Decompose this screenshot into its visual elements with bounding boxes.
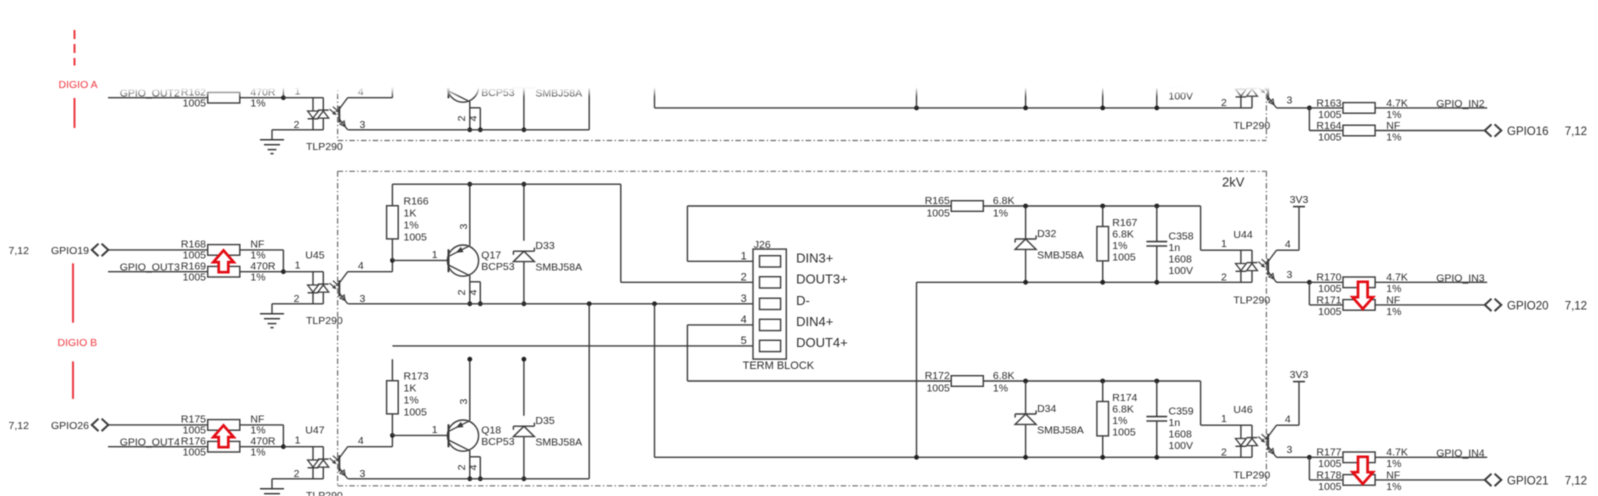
svg-text:GPIO_IN3: GPIO_IN3 <box>1436 272 1485 284</box>
svg-text:1%: 1% <box>404 220 419 232</box>
svg-text:6.8K: 6.8K <box>993 195 1015 207</box>
svg-text:1: 1 <box>1221 413 1227 425</box>
svg-text:GPIO26: GPIO26 <box>51 420 89 432</box>
svg-text:C359: C359 <box>1169 405 1194 417</box>
svg-text:D-: D- <box>796 293 810 308</box>
svg-text:1n: 1n <box>1169 417 1181 429</box>
svg-text:1005: 1005 <box>404 232 428 244</box>
svg-text:2: 2 <box>456 115 468 121</box>
svg-text:SMBJ58A: SMBJ58A <box>535 262 582 274</box>
svg-text:R178: R178 <box>1316 469 1341 481</box>
svg-text:J26: J26 <box>754 239 771 251</box>
svg-text:1005: 1005 <box>926 382 950 394</box>
svg-text:R172: R172 <box>925 370 950 382</box>
svg-text:6.8K: 6.8K <box>993 370 1015 382</box>
svg-text:U45: U45 <box>305 250 324 262</box>
svg-text:NF: NF <box>250 414 264 426</box>
svg-text:3: 3 <box>741 293 747 305</box>
svg-text:1005: 1005 <box>926 207 950 219</box>
svg-text:3V3: 3V3 <box>1290 194 1309 206</box>
svg-text:BCP53: BCP53 <box>481 261 514 273</box>
svg-text:1608: 1608 <box>1169 428 1193 440</box>
svg-text:R165: R165 <box>925 195 950 207</box>
svg-text:1%: 1% <box>250 98 265 110</box>
svg-text:SMBJ58A: SMBJ58A <box>1037 250 1084 262</box>
svg-text:7,12: 7,12 <box>1565 301 1587 313</box>
svg-text:1005: 1005 <box>1112 251 1136 263</box>
svg-text:R173: R173 <box>404 371 429 383</box>
svg-text:6.8K: 6.8K <box>1112 228 1134 240</box>
svg-text:1005: 1005 <box>183 446 207 458</box>
svg-text:R174: R174 <box>1112 392 1137 404</box>
svg-text:1n: 1n <box>1169 242 1181 254</box>
svg-text:4: 4 <box>741 314 747 326</box>
svg-text:1%: 1% <box>1112 240 1127 252</box>
svg-text:1: 1 <box>741 250 747 262</box>
svg-text:GPIO16: GPIO16 <box>1507 126 1549 138</box>
svg-text:TLP290: TLP290 <box>1233 120 1270 132</box>
svg-text:DOUT4+: DOUT4+ <box>796 335 848 350</box>
svg-text:DOUT3+: DOUT3+ <box>796 272 848 287</box>
svg-text:1005: 1005 <box>1318 481 1342 493</box>
svg-text:3: 3 <box>458 224 470 230</box>
svg-text:4: 4 <box>358 435 364 447</box>
svg-text:7,12: 7,12 <box>9 245 30 257</box>
svg-text:2: 2 <box>1221 447 1227 459</box>
svg-text:D32: D32 <box>1037 228 1056 240</box>
svg-text:2: 2 <box>1221 97 1227 109</box>
svg-text:7,12: 7,12 <box>9 420 30 432</box>
svg-text:3: 3 <box>1287 444 1293 456</box>
svg-text:TLP290: TLP290 <box>306 141 343 153</box>
svg-text:6.8K: 6.8K <box>1112 403 1134 415</box>
svg-text:1005: 1005 <box>1112 426 1136 438</box>
svg-text:1608: 1608 <box>1169 253 1193 265</box>
svg-text:1%: 1% <box>1386 131 1401 143</box>
svg-text:C358: C358 <box>1169 230 1194 242</box>
svg-text:R171: R171 <box>1316 294 1341 306</box>
svg-text:D35: D35 <box>535 415 554 427</box>
svg-text:R170: R170 <box>1316 272 1341 284</box>
svg-text:4: 4 <box>1285 414 1291 426</box>
svg-text:1: 1 <box>1221 238 1227 250</box>
svg-text:SMBJ58A: SMBJ58A <box>1037 425 1084 437</box>
svg-text:470R: 470R <box>250 260 276 272</box>
svg-text:2kV: 2kV <box>1222 175 1245 190</box>
svg-text:U46: U46 <box>1233 404 1252 416</box>
svg-text:4: 4 <box>1285 239 1291 251</box>
svg-text:1: 1 <box>432 249 438 261</box>
svg-text:TLP290: TLP290 <box>1233 295 1270 307</box>
svg-text:1%: 1% <box>1386 306 1401 318</box>
svg-text:R164: R164 <box>1316 120 1341 132</box>
svg-text:470R: 470R <box>250 435 276 447</box>
svg-text:1%: 1% <box>993 207 1008 219</box>
svg-text:1005: 1005 <box>1318 306 1342 318</box>
svg-text:DIGIO A: DIGIO A <box>59 79 98 91</box>
svg-text:100V: 100V <box>1169 265 1194 277</box>
svg-text:1%: 1% <box>250 447 265 459</box>
svg-text:1005: 1005 <box>183 97 207 109</box>
svg-text:D33: D33 <box>535 240 554 252</box>
svg-text:Q18: Q18 <box>481 424 501 436</box>
svg-text:R177: R177 <box>1316 447 1341 459</box>
svg-text:4: 4 <box>468 289 480 295</box>
svg-text:4: 4 <box>468 464 480 470</box>
svg-text:2: 2 <box>294 293 300 305</box>
svg-text:5: 5 <box>741 335 747 347</box>
svg-text:2: 2 <box>1221 272 1227 284</box>
svg-text:TLP290: TLP290 <box>1233 470 1270 482</box>
svg-text:100V: 100V <box>1169 440 1194 452</box>
svg-text:3: 3 <box>458 399 470 405</box>
svg-text:1K: 1K <box>404 208 417 220</box>
svg-text:SMBJ58A: SMBJ58A <box>535 437 582 449</box>
svg-text:TLP290: TLP290 <box>306 490 343 496</box>
svg-text:TERM BLOCK: TERM BLOCK <box>743 360 815 372</box>
svg-text:2: 2 <box>741 271 747 283</box>
svg-text:D34: D34 <box>1037 403 1056 415</box>
svg-text:4: 4 <box>358 260 364 272</box>
svg-text:2: 2 <box>456 289 468 295</box>
svg-text:BCP53: BCP53 <box>481 436 514 448</box>
svg-text:1%: 1% <box>404 395 419 407</box>
svg-text:Q17: Q17 <box>481 249 501 261</box>
svg-text:1: 1 <box>295 259 301 271</box>
svg-text:4: 4 <box>468 115 480 121</box>
svg-text:1005: 1005 <box>183 271 207 283</box>
svg-text:1%: 1% <box>250 272 265 284</box>
svg-text:1%: 1% <box>1112 415 1127 427</box>
svg-text:R163: R163 <box>1316 97 1341 109</box>
svg-text:GPIO_IN2: GPIO_IN2 <box>1436 98 1485 110</box>
svg-text:7,12: 7,12 <box>1565 126 1587 138</box>
svg-text:7,12: 7,12 <box>1565 476 1587 488</box>
svg-text:2: 2 <box>294 119 300 131</box>
svg-text:NF: NF <box>250 239 264 251</box>
svg-text:1: 1 <box>432 424 438 436</box>
svg-text:3: 3 <box>1287 269 1293 281</box>
svg-text:1K: 1K <box>404 383 417 395</box>
svg-text:1%: 1% <box>993 382 1008 394</box>
svg-text:1%: 1% <box>1386 481 1401 493</box>
svg-text:2: 2 <box>294 468 300 480</box>
svg-text:U44: U44 <box>1233 229 1252 241</box>
svg-text:DIGIO B: DIGIO B <box>58 337 98 349</box>
svg-text:1005: 1005 <box>404 407 428 419</box>
svg-text:DIN3+: DIN3+ <box>796 251 833 266</box>
svg-text:2: 2 <box>456 464 468 470</box>
svg-text:R167: R167 <box>1112 217 1137 229</box>
svg-text:GPIO_IN4: GPIO_IN4 <box>1436 447 1485 459</box>
svg-text:U47: U47 <box>305 425 324 437</box>
svg-text:3V3: 3V3 <box>1290 369 1309 381</box>
svg-text:GPIO20: GPIO20 <box>1507 301 1549 313</box>
svg-text:GPIO19: GPIO19 <box>51 245 89 257</box>
svg-text:1: 1 <box>295 434 301 446</box>
svg-text:1005: 1005 <box>1318 131 1342 143</box>
svg-text:DIN4+: DIN4+ <box>796 314 833 329</box>
svg-text:GPIO21: GPIO21 <box>1507 476 1549 488</box>
svg-text:R166: R166 <box>404 196 429 208</box>
